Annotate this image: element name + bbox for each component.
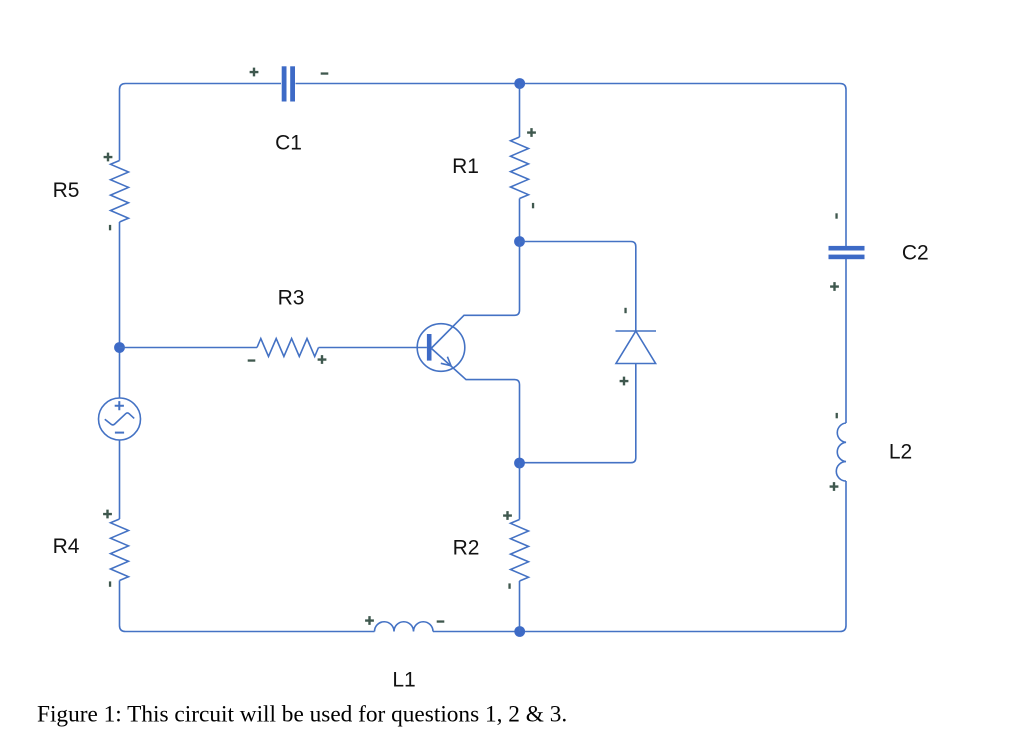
- wire bottom rail right segment with bottom-right corner up to L2: [433, 481, 846, 632]
- svg-text:L1: L1: [392, 669, 415, 692]
- wire right rail L2 to C2: [845, 259, 847, 423]
- polarity marks C1: [250, 68, 329, 77]
- polarity marks L1: [365, 616, 444, 625]
- resistor R2: [511, 520, 529, 582]
- wire R1 bottom lead to collector node: [519, 199, 521, 242]
- node junction A (left rail / R3 branch): [114, 342, 125, 353]
- svg-text:R3: R3: [278, 287, 305, 310]
- polarity marks diode: [620, 308, 629, 386]
- svg-text:C2: C2: [902, 242, 929, 265]
- diode D1: [616, 331, 657, 364]
- resistor R4: [111, 519, 129, 581]
- wire diode branch bottom (diode to emitter node): [520, 364, 636, 463]
- svg-text:R5: R5: [53, 179, 80, 202]
- ac voltage source V1: [99, 398, 141, 440]
- polarity marks C2: [830, 213, 839, 291]
- svg-text:Figure 1: This circuit will be: Figure 1: This circuit will be used for …: [37, 702, 567, 728]
- node junction bottom rail / R2: [514, 626, 525, 637]
- node junction emitter / R2 / diode branch: [514, 458, 525, 469]
- svg-text:C1: C1: [275, 132, 302, 155]
- wire diode branch top (node to diode): [520, 242, 636, 332]
- transistor Q1 (circle and base bar): [417, 324, 465, 372]
- polarity marks L2: [830, 413, 839, 491]
- inductor L2: [836, 423, 846, 481]
- wire R2 bottom lead to bottom rail: [519, 581, 521, 632]
- node junction top rail / R1: [514, 78, 525, 89]
- svg-text:L2: L2: [889, 441, 912, 464]
- resistor R1: [511, 137, 529, 199]
- wire emitter from transistor right and down to emitter node: [432, 349, 520, 464]
- polarity marks R3: [248, 355, 327, 364]
- wire top rail right segment with top-right corner down to C2: [296, 84, 847, 247]
- wire left rail source to R4: [119, 440, 121, 519]
- wire collector from node down and left to transistor: [432, 242, 520, 349]
- node junction collector / R1 / diode branch: [514, 236, 525, 247]
- wire R2 top lead: [519, 463, 521, 520]
- polarity marks R1: [527, 128, 536, 208]
- wire left rail R5 to source: [119, 222, 121, 398]
- inductor L1: [375, 622, 434, 632]
- wire base lead from R3 to transistor: [319, 347, 427, 349]
- svg-text:R1: R1: [452, 155, 479, 178]
- wire R1 top lead from node: [519, 84, 521, 138]
- svg-text:R2: R2: [453, 537, 480, 560]
- wire bottom rail left segment with bottom-left corner to L1: [120, 581, 375, 632]
- wire node A to R3: [120, 347, 258, 349]
- polarity marks R5: [104, 153, 113, 231]
- capacitor C2: [829, 246, 865, 259]
- resistor R5: [111, 161, 129, 223]
- transistor Q1 emitter arrowhead: [441, 357, 451, 366]
- capacitor C1: [282, 66, 295, 101]
- resistor R3: [257, 339, 319, 357]
- wire top rail left segment with top-left corner down to R5: [120, 84, 282, 161]
- svg-text:R4: R4: [53, 535, 80, 558]
- polarity marks R2: [503, 511, 512, 589]
- polarity marks R4: [103, 510, 112, 587]
